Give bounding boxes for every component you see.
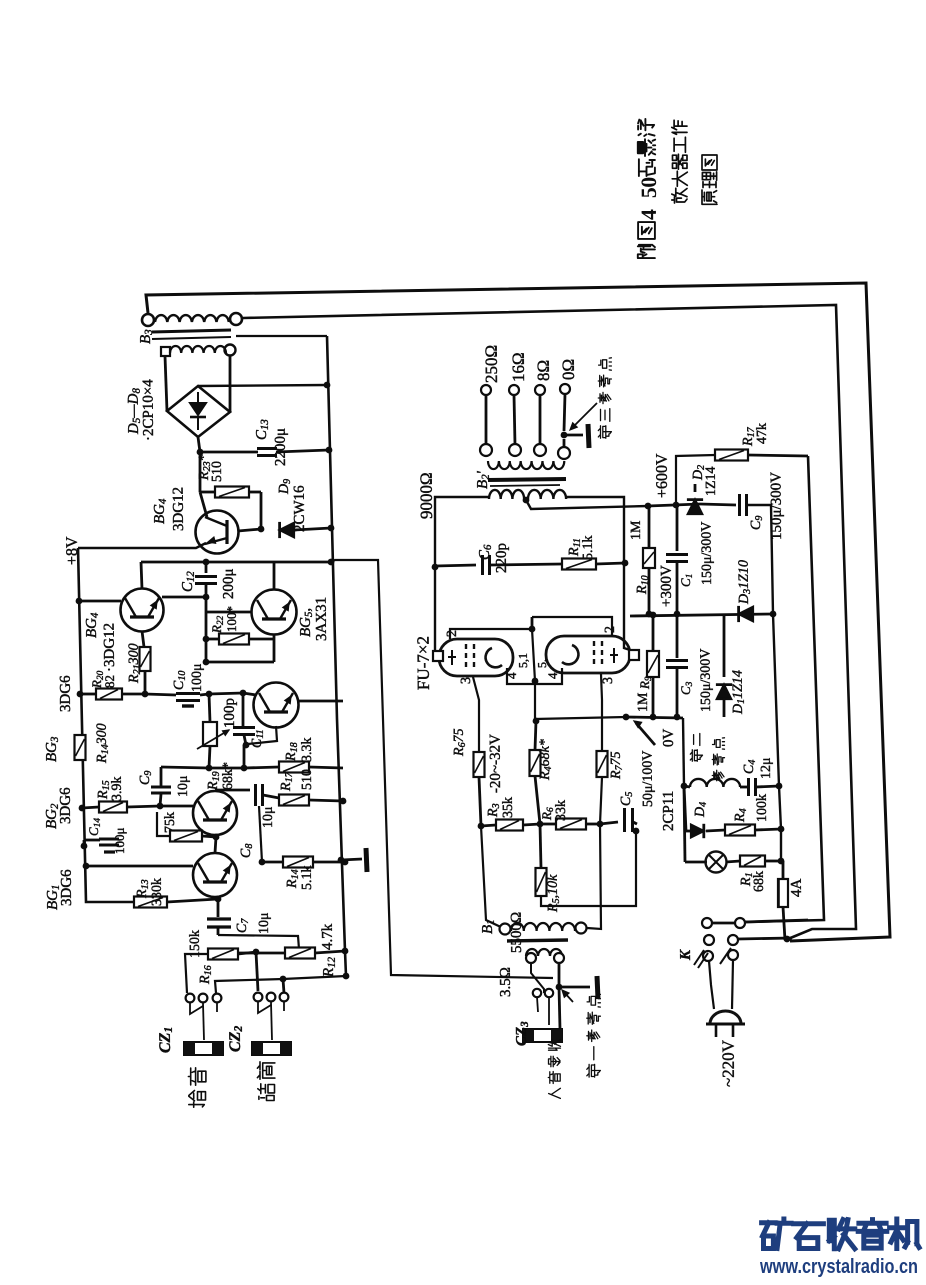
fuse 4A [778,879,788,907]
arrow to third ref point [572,403,597,428]
wire C9 coupling stem [160,767,163,786]
wire C8 bottom branch to R14 5.1k line [259,806,262,862]
svg-text:D31Z10: D31Z10 [737,560,753,605]
tube right top cap terminal [629,650,639,660]
svg-text:4: 4 [504,672,519,679]
label third reference point [598,426,611,438]
svg-text:5: 5 [637,187,661,198]
svg-text:100p: 100p [222,698,238,728]
bridge rectifier D5-D8 diamond [167,386,230,437]
diode D3 1Z10 on rail [739,607,753,621]
wire common line CZ area [215,976,346,993]
resistor R11 5.1k [562,559,596,570]
svg-text:4: 4 [545,672,560,679]
svg-text:R675: R675 [452,728,468,757]
connector CZ2 plug symbol [252,1042,291,1055]
svg-text:R468k*: R468k* [538,739,554,781]
diode D5b 1Z14 mid [723,614,726,677]
wire C8 to R17 [263,795,279,798]
wire C9hv right down the feed column [747,505,779,786]
svg-text:3DG6: 3DG6 [58,787,74,824]
svg-text:2CW16: 2CW16 [292,485,308,532]
svg-text:100k: 100k [755,794,770,822]
resistor R9 1M [652,615,655,651]
resistor R21 300 [140,647,151,671]
wire rail to C9hv [700,504,736,505]
label huatong microphone [258,1084,275,1101]
svg-text:5.1k: 5.1k [300,865,315,890]
resistor R8 33k [540,823,556,826]
resistor R3 35k [481,825,496,826]
wire to C13 [200,451,258,454]
wire +600V rail [648,504,700,506]
svg-text:5,: 5, [535,659,549,668]
svg-text:R21300: R21300 [127,643,143,684]
svg-text:47k: 47k [755,423,770,444]
switch K row2 contacts [704,935,714,945]
transformer B3 primary winding [142,314,154,326]
wire BG4 emitter to +8V rail [78,543,206,548]
svg-text:50μ/100V: 50μ/100V [641,750,656,807]
wire mains loop second from B3 primary right to switch row 2 [243,305,856,939]
svg-text:3.9k: 3.9k [110,776,125,801]
wire right tube pin3 down [601,674,602,751]
svg-text:4: 4 [637,209,661,220]
wire 33k node to C5 [600,822,618,824]
capacitor C11 [242,693,245,727]
wire 75k right to BG2 emitter node [202,836,216,837]
svg-text:R775: R775 [609,751,625,780]
ground bar third reference [588,424,589,448]
switch K moving contacts [703,951,713,961]
tube left grid dashes [465,644,467,671]
wire BG5 collector up to rail line [273,563,276,589]
wire C6 node on left plate line [432,564,439,571]
wire main bus vertical (bridge to bottom) [327,336,346,976]
wire left tube pin3 down [473,677,479,752]
title caption line2 [672,188,687,203]
wire secondary right down [558,963,561,987]
capacitor C8 coupling [254,784,257,806]
wire node down to CZ2 pin [256,952,258,991]
wire mains loop outer from B3 primary left to switch bottom row [146,283,890,941]
tube left anode arc [486,648,502,667]
capacitor C10hv 150u300V upper [676,505,679,551]
svg-text:0V: 0V [661,728,677,747]
svg-text:+300V: +300V [659,565,675,607]
wire R6 to junction A [479,777,481,826]
capacitor C4 12u [747,778,750,796]
wire third ref ground stub [564,434,583,437]
wire first reference ground stub [559,986,590,989]
resistor R4b 100k [725,825,755,836]
svg-text:10μ: 10μ [176,775,191,797]
svg-text:9000Ω: 9000Ω [417,472,436,519]
tube right cathode [613,648,615,663]
svg-text:10μ: 10μ [261,806,276,828]
svg-text:~220V: ~220V [719,1039,738,1087]
wire C6 to R11 [490,564,562,565]
wire bias column down [779,786,784,861]
arrow to first ref point [563,991,573,1002]
wire C13 to rail [276,450,329,452]
svg-text:3: 3 [601,677,616,684]
wire C13 node down to R23 node [199,452,202,492]
svg-text:2200μ: 2200μ [273,428,289,466]
svg-text:12μ: 12μ [759,757,774,779]
connector CZ3 plug symbol [523,1029,562,1042]
diode D2 1Z14 [688,500,702,514]
tube right anode arc [562,645,578,664]
resistor R10 1M [648,506,651,548]
svg-text:150μ/300V: 150μ/300V [699,521,715,585]
zener diode D9 2CW16 [280,523,294,537]
wire switch to plug left [709,961,714,1009]
wire +8V rail vertical left side [78,548,134,902]
transistor BG4 regulator 3DG12 [196,511,239,554]
ground symbol chassis [366,848,367,872]
svg-text:150μ/300V: 150μ/300V [698,648,714,712]
capacitor C7 10u [207,917,231,920]
wire BG4 base to zener node [238,529,261,531]
wire secondary left to bridge left vertex [165,356,167,411]
wire from R17 47k right end down to switch row 1 [745,456,824,922]
tube FU-7 right envelope [546,636,630,673]
transistor BG7 driver [254,683,299,728]
svg-text:·2CP10×4: ·2CP10×4 [140,379,157,441]
transistor BG1 3DG6 [193,853,237,897]
wire BG2 collector through C8 [214,790,217,792]
resistor R12 4.7k [285,948,315,959]
svg-text:8Ω: 8Ω [534,360,553,381]
wire BG1 emitter to C7 [217,899,220,917]
wire R18 line [209,767,244,770]
wire junction A down to B1 primary left [481,826,505,929]
wire grids down to bracket [532,629,535,719]
transistor BG5 3AX31 [252,590,297,635]
wire D4 branch down [684,786,686,831]
wire BG5 emitter down [273,634,276,662]
wire BG2 emitter to BG1 collector [215,837,216,853]
wire R13 to BG1 emitter node [167,899,218,902]
svg-text:R5,10k: R5,10k [546,874,562,913]
svg-text:3.3k: 3.3k [300,737,315,762]
svg-text:3DG12: 3DG12 [171,487,187,531]
svg-text:33k: 33k [554,800,569,821]
wire 75k left hook [157,812,170,836]
svg-text:1M: 1M [629,520,644,540]
resistor R6 75 left [474,752,485,777]
svg-text:3.5Ω: 3.5Ω [498,967,514,997]
svg-text:68k*: 68k* [221,762,236,790]
svg-text:4A: 4A [789,878,805,897]
svg-text:2CP11: 2CP11 [661,791,677,831]
transformer B3 secondary winding [161,347,170,356]
label first reference point [587,1064,601,1077]
arrow to second ref point [636,723,655,745]
connector CZ2 pins [254,993,263,1002]
label second reference point [690,750,702,761]
svg-text:75k: 75k [163,812,178,833]
svg-text:2: 2 [603,626,618,633]
svg-text:3: 3 [459,677,474,684]
wire R16 left down to CZ1 pin [185,954,208,993]
transistor BG6 3DG12 [121,589,164,632]
wire BG2 base line [160,805,193,808]
wire lamp to R1b 68k [726,861,740,862]
wire BG6 collector line to C12 rail line [141,562,142,589]
capacitor C14 100u [81,843,88,850]
wire switch to plug right [732,960,733,1009]
svg-text:2: 2 [445,630,460,637]
transformer B1 primary 5500 ohm [500,924,511,935]
wire BG6 base link line [162,596,206,599]
choke filter coil [690,779,740,787]
svg-text:150μ/300V: 150μ/300V [768,472,785,540]
resistor R1b 68k [740,856,765,867]
svg-text:·3DG12: ·3DG12 [102,623,118,672]
wire primary right end [566,497,633,651]
svg-text:200μ: 200μ [221,568,237,599]
svg-text:3DG6: 3DG6 [58,675,74,712]
wire left from R18 line to C9 stem [161,767,209,768]
wire emitter row [206,661,274,664]
resistor R5 10k [540,824,541,868]
connector CZ1 plug symbol [184,1042,223,1055]
resistor R16 150k [208,949,238,960]
title caption line3 [702,190,717,204]
heater bracket between tubes [507,668,562,684]
wire CZ3 arms [537,997,538,1012]
connector CZ3 pins [533,989,541,997]
tube FU-7 left envelope [439,639,513,676]
wire R5 bottom to C5 drop line [541,831,636,906]
wire C12 node down [205,597,208,662]
ground bar first reference [597,976,598,999]
wire BG1 base line from rail [83,863,90,870]
wire BG6 base from +8V rail [79,600,121,603]
svg-text:330k: 330k [150,878,165,906]
resistor R15 3.9k [79,805,86,812]
wire 0V rail drop to bias block [683,718,684,786]
svg-text:FU-7×2: FU-7×2 [414,636,433,690]
wire CZ2 right pin drop [283,979,284,993]
resistor 75k feedback [170,831,202,842]
resistor R17 510 [279,795,309,806]
wire driver emitter down to C11 node [248,726,277,744]
wire R16 junction node [253,949,260,956]
switch K row1 contacts [702,918,712,928]
wire C10 line [145,694,176,695]
svg-text:R14300: R14300 [95,723,111,764]
svg-text:10μ: 10μ [257,912,272,934]
resistor R7 75 right [597,751,608,777]
svg-text:-20~-32V: -20~-32V [487,734,504,793]
svg-text:16Ω: 16Ω [509,352,528,382]
capacitor C9 10u [151,786,171,789]
capacitor C11hv 150u300V lower [676,614,679,658]
svg-text:1M: 1M [636,692,651,712]
wire +300V rail [630,614,773,616]
grid tie line between tubes [450,629,532,639]
svg-text:+600V: +600V [654,453,671,498]
wire driver collector to bus [298,700,343,703]
wire riser to R17 47k line [676,455,715,505]
transformer B2 primary winding [489,490,524,499]
capacitor C12 200u [205,562,208,573]
wire bus top hook [236,335,327,337]
wire R23 right down to zener node [260,492,263,529]
wire R7 bottom through junction C to B1 right [587,777,602,929]
capacitor C9hv 150u300V [738,494,741,516]
svg-text:5,1: 5,1 [516,653,530,668]
wire center tap to +600 rail [526,500,648,509]
tube right grid dashes [593,641,595,668]
svg-text:1Z14: 1Z14 [704,466,719,496]
wire line to driver transistor base [209,693,243,694]
wire bus ground stub [338,857,345,864]
capacitor C13 2200u [257,447,277,450]
resistor R23 510 [200,491,215,494]
connector CZ1 contact arms [190,1003,203,1014]
label recording input [549,1088,561,1098]
mains plug body [710,1011,741,1024]
resistor R14 5.1k [262,861,283,864]
transformer B2 secondary winding [480,444,492,456]
svg-text:www.crystalradio.cn: www.crystalradio.cn [759,1256,918,1278]
svg-text:3DG6: 3DG6 [59,869,75,906]
svg-text:100μ: 100μ [112,827,127,854]
resistor R22 100* [219,634,249,645]
resistor R4 68k* from bracket [533,718,540,725]
wire R11 right to anode line [596,563,625,564]
wire trimmer bottom to R18 line [209,746,210,768]
svg-text:35k: 35k [501,797,516,818]
svg-text:510: 510 [210,461,225,482]
svg-text:5500Ω: 5500Ω [509,912,525,953]
wire R4 to junction B [535,776,540,824]
third reference point junction [561,432,568,439]
wire R23 node down to BG4 collector [200,492,207,517]
capacitor C6 220p [481,555,484,575]
bridge inner diode symbol [190,403,206,415]
lamp indicator [684,786,685,862]
transformer B2 core [488,479,566,480]
svg-text:5.1k: 5.1k [581,535,596,560]
capacitor C5 50u/100V [623,808,626,832]
wire primary left end [435,497,489,656]
wire bridge plus output to main rail [198,385,327,386]
wire C12 top line to bus [141,561,331,564]
svg-text:100*: 100* [224,606,239,632]
wire C7 to R12 tap [218,935,299,949]
diode D4 2CP11 [691,825,704,838]
watermark crystalradio logo [762,1219,792,1249]
wire 0V rail [626,717,683,718]
wire BG6 emitter to R21 [142,631,144,647]
resistor R17b 47k [715,450,748,461]
svg-text:510: 510 [300,769,315,790]
transformer B1 secondary 3.5 ohm [526,949,562,956]
svg-text:D11Z14: D11Z14 [731,670,747,715]
wire R21 to R20 node [144,671,147,694]
capacitor C10 100u [176,692,200,695]
transformer B3 core [152,330,231,332]
title figure 4 caption line1 [638,245,655,258]
tube left cathode [451,650,453,665]
variable capacitor 100p trimmer [209,694,210,722]
plug prongs [715,1024,718,1037]
wire secondary left down to common line [531,963,544,993]
svg-text:0: 0 [637,177,661,188]
svg-text:K: K [678,949,694,961]
wire bridge minus down to C13 node [198,437,200,452]
primary center tap [523,497,530,504]
switch K lever slashes [694,950,704,965]
svg-text:BG5,: BG5, [298,608,315,637]
resistor R14 300 in rail [75,735,86,760]
svg-text:68k: 68k [752,871,767,892]
svg-text:250Ω: 250Ω [482,345,501,383]
resistor R13 330k [134,897,167,908]
resistor R20 82 [80,693,96,696]
tube left top cap terminal [433,651,443,661]
speaker tap terminals [481,385,491,395]
wire feedback long line to B1 [331,560,553,978]
svg-text:4.7k: 4.7k [320,923,336,950]
wire to BG5 base [206,611,252,614]
wire BG1 emitter down [215,897,218,899]
wire secondary right to bridge right vertex [229,355,232,412]
svg-text:100μ: 100μ [190,663,205,692]
resistor R18 3.3k [279,762,309,773]
svg-text:220p: 220p [494,543,510,573]
label shiyin pickup [189,1091,206,1108]
svg-text:3AX31: 3AX31 [314,597,330,641]
svg-text:0Ω: 0Ω [559,359,578,380]
transformer B1 core [507,940,568,941]
connector CZ2 contact arms [258,1002,271,1013]
tap wires [485,395,488,445]
wire grid bias line from tubes 0V [535,717,626,719]
transistor BG2 3DG6 [193,791,237,835]
svg-text:82: 82 [102,675,117,688]
connector CZ1 pins [186,994,195,1003]
